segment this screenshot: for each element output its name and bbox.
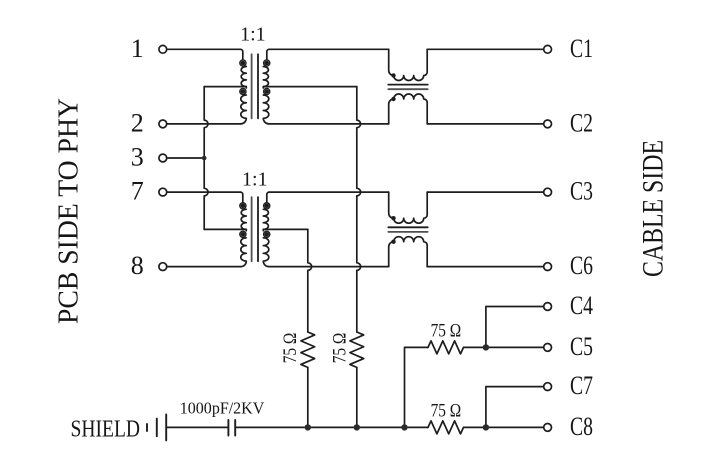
transformer T2 secondary winding loops bbox=[264, 203, 270, 209]
wire CMC1 to C1 bbox=[427, 48, 544, 50]
wire CMC2 to C3 bbox=[427, 191, 544, 193]
svg-text:C3: C3 bbox=[570, 177, 593, 206]
choke CMC1 core bbox=[388, 84, 427, 86]
svg-text:1:1: 1:1 bbox=[240, 23, 266, 45]
terminal C5 bbox=[544, 344, 552, 352]
wire T2 secondary CT drop with hop to resistor R1 bbox=[308, 229, 312, 332]
terminal pin8 bbox=[159, 263, 167, 271]
svg-text:PCB SIDE TO PHY: PCB SIDE TO PHY bbox=[53, 98, 85, 324]
wire node to C7 bbox=[486, 387, 544, 428]
wire pin8 to T2 primary bottom bbox=[167, 266, 241, 268]
choke CMC1 bottom winding bbox=[389, 94, 428, 124]
wire T1 secondary CT drop with hops to resistor R2 bbox=[357, 87, 361, 332]
wire T2 secondary bottom to CMC2 bbox=[269, 266, 389, 268]
svg-text:C8: C8 bbox=[570, 412, 593, 441]
transformer T2 core bbox=[251, 197, 253, 261]
svg-text:75 Ω: 75 Ω bbox=[431, 321, 462, 342]
terminal pin2 bbox=[159, 120, 167, 128]
wire T2 secondary top to CMC2 bbox=[269, 191, 389, 193]
choke CMC2 phase dots bbox=[391, 216, 395, 220]
wire pin2 to T1 primary bottom bbox=[167, 123, 241, 125]
transformer T1 primary winding loops bbox=[240, 60, 246, 66]
terminal C8 bbox=[544, 424, 552, 432]
transformer T2 primary phase dots bbox=[241, 204, 246, 209]
ground symbol at shield bbox=[147, 414, 166, 440]
terminal C7 bbox=[544, 383, 552, 391]
svg-text:C6: C6 bbox=[570, 251, 593, 280]
svg-text:CABLE SIDE: CABLE SIDE bbox=[637, 140, 670, 277]
terminal C4 bbox=[544, 303, 552, 311]
wire T1 secondary top to CMC1 bbox=[269, 48, 389, 50]
junction node C7 C8 bbox=[483, 424, 489, 430]
terminal pin3 bbox=[159, 154, 167, 162]
svg-text:1: 1 bbox=[131, 34, 144, 63]
wire T2 primary center tap bbox=[204, 228, 246, 230]
junction node C4 C5 bbox=[483, 344, 489, 350]
wire node to C5 bbox=[486, 346, 544, 348]
choke CMC2 core bbox=[388, 226, 427, 228]
terminal C3 bbox=[544, 188, 552, 196]
capacitor 1000pF/2KV plates bbox=[228, 420, 235, 436]
svg-text:C5: C5 bbox=[570, 332, 593, 361]
transformer T1 secondary winding bbox=[263, 49, 269, 124]
svg-text:75 Ω: 75 Ω bbox=[431, 401, 462, 422]
wire resistor R4 output to node bbox=[464, 426, 486, 428]
svg-text:8: 8 bbox=[131, 251, 144, 280]
transformer T1 primary winding bbox=[240, 49, 246, 124]
terminal pin7 bbox=[159, 188, 167, 196]
junction node bus R1 bbox=[305, 424, 311, 430]
svg-text:C2: C2 bbox=[570, 108, 593, 137]
wire T1 secondary center tap bbox=[263, 86, 357, 88]
wire CMC2 to C6 bbox=[427, 266, 544, 268]
svg-text:75 Ω: 75 Ω bbox=[280, 333, 301, 364]
wire resistor R3 output to node bbox=[464, 346, 486, 348]
resistor R3 75ohm horizontal bbox=[428, 341, 463, 354]
transformer T2 primary winding bbox=[240, 192, 246, 267]
wire T1 secondary bottom to CMC1 bbox=[269, 123, 389, 125]
wire node to C4 bbox=[486, 307, 544, 348]
wire ground to capacitor C1000 bbox=[166, 426, 227, 428]
svg-text:C1: C1 bbox=[570, 34, 593, 63]
svg-text:SHIELD: SHIELD bbox=[71, 417, 141, 443]
wire primary center-tap bus with hops bbox=[204, 87, 208, 230]
transformer T2 secondary phase dots bbox=[264, 204, 269, 209]
transformer T1 core bbox=[251, 54, 253, 118]
svg-text:C7: C7 bbox=[570, 371, 593, 400]
terminal C2 bbox=[544, 120, 552, 128]
wire resistor R2 to bus bbox=[356, 368, 358, 428]
transformer T1 secondary winding loops bbox=[264, 60, 270, 66]
svg-text:C4: C4 bbox=[570, 291, 593, 320]
svg-text:3: 3 bbox=[131, 143, 144, 172]
wire pin7 to T2 primary top bbox=[167, 191, 241, 193]
resistor R4 75ohm horizontal bbox=[428, 421, 463, 434]
junction node pin3 bbox=[202, 156, 207, 161]
wire T2 secondary center tap bbox=[263, 228, 308, 230]
svg-text:1:1: 1:1 bbox=[242, 169, 268, 191]
junction node bus R2 bbox=[354, 424, 360, 430]
choke CMC1 phase dots bbox=[391, 73, 395, 77]
choke CMC2 bottom winding bbox=[389, 237, 428, 267]
resistor R2 75ohm vertical bbox=[350, 332, 364, 367]
junction node bus riser bbox=[401, 424, 407, 430]
terminal C6 bbox=[544, 263, 552, 271]
svg-text:1000pF/2KV: 1000pF/2KV bbox=[180, 398, 265, 417]
svg-text:7: 7 bbox=[131, 177, 144, 206]
transformer T2 secondary winding bbox=[263, 192, 269, 267]
choke CMC2 top winding bbox=[389, 192, 428, 223]
choke CMC1 top winding bbox=[389, 49, 428, 80]
wire T1 primary center tap bbox=[204, 86, 246, 88]
svg-text:75 Ω: 75 Ω bbox=[330, 333, 351, 364]
transformer T2 primary winding loops bbox=[240, 203, 246, 209]
wire pin3 to center-tap bus bbox=[167, 157, 205, 159]
wire capacitor to shield bus bbox=[236, 426, 428, 428]
wire node to C8 bbox=[486, 426, 544, 428]
transformer T1 primary phase dots bbox=[241, 61, 246, 66]
svg-text:2: 2 bbox=[131, 108, 144, 137]
transformer T1 secondary phase dots bbox=[264, 61, 269, 66]
wire bus riser to resistor R3 bbox=[405, 347, 429, 427]
terminal C1 bbox=[544, 45, 552, 53]
terminal pin1 bbox=[159, 45, 167, 53]
resistor R1 75ohm vertical bbox=[301, 332, 315, 367]
wire pin1 to T1 primary top bbox=[167, 48, 241, 50]
wire CMC1 to C2 bbox=[427, 123, 544, 125]
wire resistor R1 to bus bbox=[307, 368, 309, 428]
